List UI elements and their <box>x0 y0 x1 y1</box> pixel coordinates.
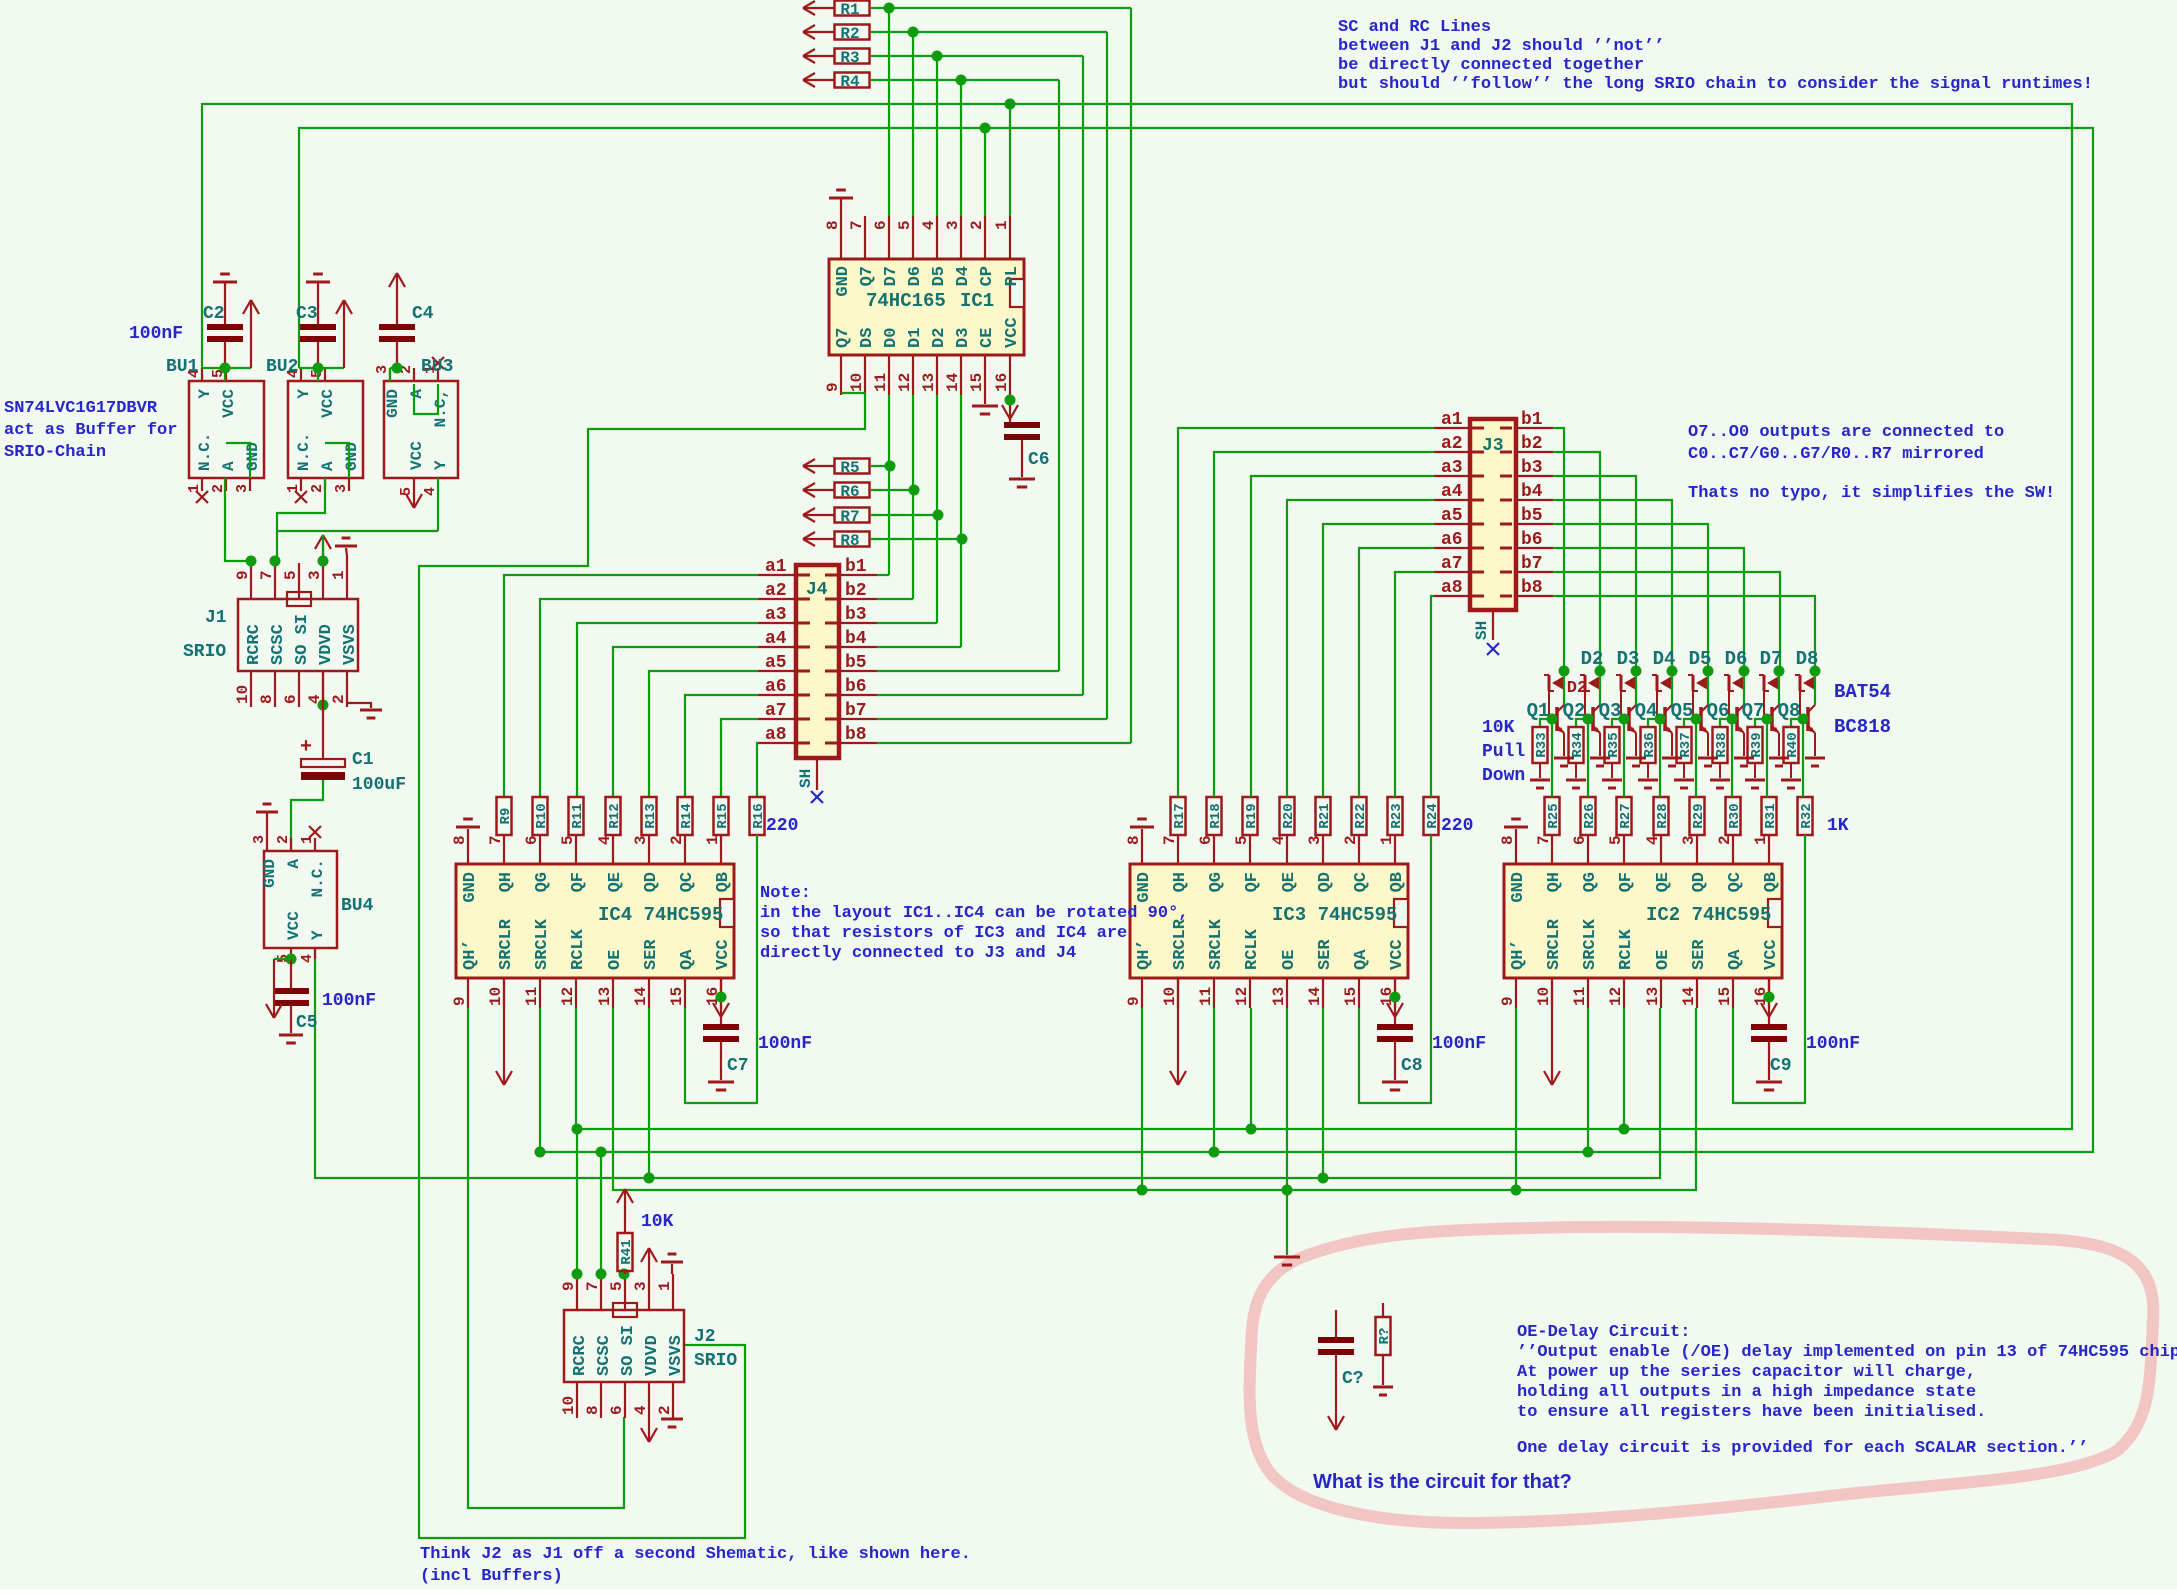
svg-text:QE: QE <box>1280 872 1299 892</box>
svg-text:16: 16 <box>993 373 1011 392</box>
svg-text:J1: J1 <box>205 608 227 628</box>
svg-text:3: 3 <box>1306 835 1324 845</box>
svg-text:6: 6 <box>282 694 300 704</box>
svg-text:DS: DS <box>858 328 877 348</box>
svg-text:BC818: BC818 <box>1834 716 1891 738</box>
svg-text:Thats no typo, it simplifies t: Thats no typo, it simplifies the SW! <box>1688 484 2055 503</box>
svg-text:Y: Y <box>196 389 214 399</box>
transistor Q2 (BC818) <box>1599 671 1601 705</box>
svg-text:A: A <box>285 859 303 869</box>
svg-text:N.C.: N.C. <box>309 859 327 897</box>
diode D1 (BAT54) <box>1559 666 1570 677</box>
svg-text:R35: R35 <box>1606 732 1622 757</box>
svg-text:SRCLK: SRCLK <box>533 918 552 970</box>
svg-text:3: 3 <box>374 365 391 374</box>
capacitor C on IC4 VCC pin16 <box>720 978 722 1024</box>
vcc arrow near C3 <box>318 367 344 369</box>
svg-text:J2: J2 <box>694 1327 716 1347</box>
svg-text:15: 15 <box>1342 987 1360 1006</box>
svg-text:N.C.: N.C. <box>196 433 214 471</box>
svg-text:3: 3 <box>632 1281 650 1291</box>
svg-text:D7: D7 <box>882 266 901 286</box>
connector J2 SRIO <box>564 1310 684 1382</box>
wire R24 bottom jog to QA pin15 <box>1359 835 1431 1103</box>
svg-text:R37: R37 <box>1678 732 1694 757</box>
wire IC3 pin13 OE + gnd drop <box>1286 1008 1288 1190</box>
node base Q5 <box>1691 714 1702 725</box>
svg-text:QB: QB <box>1388 872 1407 892</box>
svg-text:220: 220 <box>766 816 798 836</box>
svg-text:D5: D5 <box>1689 648 1712 670</box>
svg-text:GND: GND <box>1135 872 1154 903</box>
svg-text:b5: b5 <box>1521 506 1543 526</box>
wire IC2 pin12 <box>1623 1008 1625 1129</box>
svg-text:SO SI: SO SI <box>619 1325 638 1376</box>
svg-text:R25: R25 <box>1546 803 1562 828</box>
svg-text:to ensure all registers have b: to ensure all registers have been initia… <box>1517 1403 1986 1422</box>
svg-text:A: A <box>408 389 426 399</box>
svg-text:C1: C1 <box>352 750 374 770</box>
svg-text:b1: b1 <box>1521 410 1543 430</box>
svg-text:+: + <box>300 736 312 759</box>
resistor R30 <box>1726 797 1741 835</box>
svg-text:What is the circuit for that?: What is the circuit for that? <box>1313 1471 1572 1493</box>
svg-text:R23: R23 <box>1389 803 1405 828</box>
svg-text:R36: R36 <box>1642 732 1658 757</box>
svg-text:10: 10 <box>560 1396 578 1415</box>
svg-text:14: 14 <box>944 372 962 392</box>
svg-text:4: 4 <box>632 1405 650 1415</box>
svg-text:9: 9 <box>824 382 842 392</box>
svg-text:D0: D0 <box>882 328 901 348</box>
svg-text:R32: R32 <box>1799 803 1815 828</box>
diode D3 (BAT54) <box>1631 666 1642 677</box>
IC IC4 74HC595 <box>456 864 734 978</box>
svg-text:1: 1 <box>299 835 316 844</box>
svg-text:5: 5 <box>282 570 300 580</box>
svg-text:R29: R29 <box>1691 803 1707 828</box>
svg-text:a1: a1 <box>765 557 787 577</box>
wire IC4 pin11 SRCLK <box>539 1008 541 1152</box>
svg-text:J4: J4 <box>806 580 828 600</box>
wire R16 bottom jog to QA pin15 <box>685 835 757 1103</box>
svg-text:QC: QC <box>678 872 697 892</box>
transistor Q1 (BC818) <box>1563 671 1565 705</box>
buffer BU1 SN74LVC1G17 <box>189 381 264 478</box>
svg-text:QD: QD <box>642 872 661 892</box>
svg-text:QB: QB <box>714 872 733 892</box>
capacitor C3 <box>306 281 330 284</box>
J4 pin a7/b7 <box>758 718 796 720</box>
svg-text:QD: QD <box>1316 872 1335 892</box>
svg-text:QE: QE <box>606 872 625 892</box>
resistor R20 <box>1280 797 1295 835</box>
svg-text:a4: a4 <box>1441 482 1463 502</box>
svg-text:R11: R11 <box>570 803 586 828</box>
svg-text:12: 12 <box>559 987 577 1006</box>
svg-text:7: 7 <box>1161 835 1179 845</box>
svg-text:One delay circuit is provided: One delay circuit is provided for each S… <box>1517 1439 2088 1458</box>
diode D5 (BAT54) <box>1703 666 1714 677</box>
J4 pin a1/b1 <box>758 574 796 576</box>
svg-text:Q7: Q7 <box>858 266 877 286</box>
svg-text:a7: a7 <box>765 701 787 721</box>
svg-text:2: 2 <box>656 1405 674 1415</box>
svg-text:QH’: QH’ <box>1135 939 1154 970</box>
arrow below J2 pin4 <box>648 1417 650 1442</box>
resistor R19 <box>1243 797 1258 835</box>
svg-text:b2: b2 <box>1521 434 1543 454</box>
pink hand-drawn highlight ellipse <box>1250 1227 2154 1523</box>
svg-text:QH: QH <box>1545 872 1564 892</box>
svg-text:220: 220 <box>1441 816 1473 836</box>
svg-text:Think J2 as J1 off a second Sh: Think J2 as J1 off a second Shematic, li… <box>420 1545 971 1564</box>
arrow IC2 pin10 SRCLR <box>1551 978 1553 1085</box>
svg-text:3: 3 <box>234 484 251 493</box>
resistor R40 10K pulldown <box>1784 727 1799 763</box>
svg-text:8: 8 <box>1499 835 1517 845</box>
svg-text:QA: QA <box>678 949 697 970</box>
resistor R26 <box>1581 797 1596 835</box>
svg-text:C4: C4 <box>412 304 434 324</box>
J4 pin a5/b5 <box>758 670 796 672</box>
svg-text:QA: QA <box>1352 949 1371 970</box>
svg-text:2: 2 <box>1342 835 1360 845</box>
svg-text:7: 7 <box>487 835 505 845</box>
resistor R31 <box>1762 797 1777 835</box>
svg-text:O7..O0 outputs are connected t: O7..O0 outputs are connected to <box>1688 423 2004 442</box>
wire BU3 Y output <box>437 478 439 531</box>
transistor Q7 (BC818) <box>1778 671 1780 705</box>
svg-text:3: 3 <box>251 835 268 844</box>
svg-text:R27: R27 <box>1618 803 1634 828</box>
svg-text:QD: QD <box>1690 872 1709 892</box>
wire R1-R4 to b8..b5 columns <box>871 7 1131 9</box>
junction + cap C1 below J1 <box>318 700 329 711</box>
svg-text:10K: 10K <box>641 1212 674 1232</box>
wire BU3 output to J1 pin7 column <box>277 530 438 532</box>
ground above IC3 pin8 <box>1141 829 1143 864</box>
wire IC2 pin9 <box>1515 1008 1517 1190</box>
resistor R41 10K <box>618 1233 633 1271</box>
resistor R10 <box>533 797 548 835</box>
J3 SH pin <box>1492 610 1494 640</box>
wire IC1 pin9/pin10 long route to J2 right side <box>841 392 865 394</box>
svg-text:D6: D6 <box>1725 648 1748 670</box>
svg-text:VCC: VCC <box>1388 939 1407 970</box>
svg-text:but should ’’follow’’ the long: but should ’’follow’’ the long SRIO chai… <box>1338 75 2093 94</box>
svg-text:100nF: 100nF <box>758 1034 812 1054</box>
transistor Q3 (BC818) <box>1635 671 1637 705</box>
svg-text:VCC: VCC <box>1762 939 1781 970</box>
svg-text:D5: D5 <box>930 266 949 286</box>
node base Q2 <box>1583 714 1594 725</box>
svg-text:10: 10 <box>848 373 866 392</box>
wire C1 to BU4 <box>291 780 323 851</box>
svg-text:RCLK: RCLK <box>569 928 588 970</box>
svg-text:’’Output enable (/OE) delay im: ’’Output enable (/OE) delay implemented … <box>1517 1343 2177 1362</box>
svg-text:100nF: 100nF <box>1806 1034 1860 1054</box>
svg-text:11: 11 <box>872 373 890 392</box>
svg-text:QH’: QH’ <box>1509 939 1528 970</box>
resistor R22 <box>1352 797 1367 835</box>
resistor R? <box>1376 1317 1391 1355</box>
svg-text:10: 10 <box>1161 987 1179 1006</box>
svg-text:SER: SER <box>642 939 661 970</box>
wire C2 junction to bus <box>202 367 225 369</box>
svg-text:3: 3 <box>333 484 350 493</box>
svg-text:D8: D8 <box>1796 648 1819 670</box>
J4 pin a8/b8 <box>758 742 796 744</box>
vcc arrow near C2 <box>225 367 251 369</box>
svg-text:4: 4 <box>422 487 439 496</box>
svg-text:R4: R4 <box>840 73 860 91</box>
J3 pin a5/b5 <box>1434 523 1470 525</box>
svg-text:14: 14 <box>632 986 650 1006</box>
svg-text:QG: QG <box>1207 872 1226 892</box>
wire b5..b8 verticals down to J4 <box>1130 8 1132 743</box>
svg-text:D3: D3 <box>1617 648 1640 670</box>
svg-text:1: 1 <box>330 570 348 580</box>
resistor R24 <box>1424 797 1439 835</box>
ground above IC1 pin8 <box>840 198 842 216</box>
wire SER bus <box>315 948 1660 1178</box>
svg-text:12: 12 <box>1607 987 1625 1006</box>
svg-text:holding all outputs in a high: holding all outputs in a high impedance … <box>1517 1383 1976 1402</box>
svg-text:SH: SH <box>797 769 815 788</box>
IC IC1 74HC165 <box>829 259 1024 355</box>
svg-text:be directly connected together: be directly connected together <box>1338 56 1644 75</box>
svg-text:R17: R17 <box>1172 803 1188 828</box>
svg-text:a5: a5 <box>1441 506 1463 526</box>
IC IC2 74HC595 <box>1504 864 1782 978</box>
svg-text:12: 12 <box>1233 987 1251 1006</box>
svg-text:SCSC: SCSC <box>595 1335 614 1376</box>
svg-text:R38: R38 <box>1714 732 1730 757</box>
svg-text:GND: GND <box>834 266 853 297</box>
wire J3 a-side staircase down to R17..R24 <box>1178 428 1434 797</box>
svg-text:VDVD: VDVD <box>643 1335 662 1376</box>
svg-text:7: 7 <box>258 570 276 580</box>
capacitor C2 <box>213 281 237 284</box>
svg-text:9: 9 <box>451 996 469 1006</box>
svg-text:100nF: 100nF <box>129 324 183 344</box>
svg-text:GND: GND <box>261 859 279 888</box>
svg-text:BU1: BU1 <box>166 357 199 377</box>
svg-text:VCC: VCC <box>714 939 733 970</box>
svg-text:b4: b4 <box>845 629 867 649</box>
svg-text:b3: b3 <box>845 605 867 625</box>
transistor Q5 (BC818) <box>1707 671 1709 705</box>
svg-text:SN74LVC1G17DBVR: SN74LVC1G17DBVR <box>4 399 158 418</box>
svg-text:R39: R39 <box>1749 732 1765 757</box>
svg-text:14: 14 <box>1306 986 1324 1006</box>
svg-text:8: 8 <box>1125 835 1143 845</box>
svg-text:1: 1 <box>1752 835 1770 845</box>
svg-text:R3: R3 <box>840 49 859 67</box>
wire BU1 out to J1 pin9 <box>225 478 251 561</box>
svg-text:D2: D2 <box>1581 648 1604 670</box>
svg-text:4: 4 <box>596 835 614 845</box>
svg-text:VSVS: VSVS <box>667 1335 686 1376</box>
svg-text:BU3: BU3 <box>421 357 453 377</box>
svg-text:2: 2 <box>309 484 326 493</box>
svg-text:a4: a4 <box>765 629 787 649</box>
svg-text:a8: a8 <box>765 725 787 745</box>
svg-text:SRIO-Chain: SRIO-Chain <box>4 443 106 462</box>
svg-text:D7: D7 <box>1760 648 1783 670</box>
svg-text:b8: b8 <box>845 725 867 745</box>
resistor R17 <box>1171 797 1186 835</box>
svg-text:1K: 1K <box>1827 816 1849 836</box>
IC IC3 74HC595 <box>1130 864 1408 978</box>
svg-text:VCC: VCC <box>408 441 426 470</box>
svg-text:OE: OE <box>1654 950 1673 970</box>
svg-text:VCC: VCC <box>1003 317 1022 348</box>
svg-text:SRCLK: SRCLK <box>1581 918 1600 970</box>
diode D2 (BAT54) <box>1595 666 1606 677</box>
wire R32 bottom jog to QA pin15 <box>1733 835 1805 1103</box>
svg-text:Y: Y <box>432 460 450 470</box>
svg-text:D6: D6 <box>906 266 925 286</box>
svg-text:R12: R12 <box>607 803 623 828</box>
svg-text:QF: QF <box>1617 872 1636 892</box>
wire R5-R8 to column junctions <box>871 465 890 467</box>
svg-text:BU2: BU2 <box>266 357 298 377</box>
svg-text:a3: a3 <box>765 605 787 625</box>
diode D6 (BAT54) <box>1739 666 1750 677</box>
svg-text:R9: R9 <box>498 808 514 825</box>
svg-text:b6: b6 <box>1521 530 1543 550</box>
junction dots above J1 <box>246 556 257 567</box>
buffer BU2 SN74LVC1G17 <box>288 381 363 478</box>
svg-text:RCLK: RCLK <box>1617 928 1636 970</box>
svg-text:a7: a7 <box>1441 554 1463 574</box>
svg-text:QC: QC <box>1726 872 1745 892</box>
J4 pin a3/b3 <box>758 622 796 624</box>
svg-text:2: 2 <box>330 694 348 704</box>
svg-text:R26: R26 <box>1582 803 1598 828</box>
svg-text:SO SI: SO SI <box>293 614 312 665</box>
svg-text:9: 9 <box>1499 996 1517 1006</box>
svg-text:GND: GND <box>343 442 361 471</box>
svg-text:QF: QF <box>569 872 588 892</box>
resistor R15 <box>714 797 729 835</box>
resistor R36 10K pulldown <box>1641 727 1656 763</box>
svg-text:13: 13 <box>596 987 614 1006</box>
svg-text:6: 6 <box>872 220 890 230</box>
J1 SO/SI jog <box>287 592 311 606</box>
svg-text:SER: SER <box>1690 939 1709 970</box>
svg-text:Y: Y <box>309 930 327 940</box>
svg-text:A: A <box>319 461 337 471</box>
resistor R1 <box>835 1 870 16</box>
svg-text:2: 2 <box>275 835 292 844</box>
svg-text:SRIO: SRIO <box>694 1351 737 1371</box>
J3 pin a6/b6 <box>1434 547 1470 549</box>
svg-text:11: 11 <box>523 987 541 1006</box>
svg-text:1: 1 <box>186 484 203 493</box>
ground above BU4 pin3 <box>256 811 278 814</box>
svg-text:R15: R15 <box>715 803 731 828</box>
svg-text:so that resistors of IC3 and I: so that resistors of IC3 and IC4 are <box>760 924 1127 943</box>
wire IC4 pin12 RCLK <box>575 1008 577 1129</box>
svg-text:OE: OE <box>606 950 625 970</box>
svg-text:R14: R14 <box>679 803 695 828</box>
diode D4 (BAT54) <box>1667 666 1678 677</box>
svg-text:8: 8 <box>451 835 469 845</box>
svg-text:VCC: VCC <box>319 389 337 418</box>
svg-text:b8: b8 <box>1521 578 1543 598</box>
wire IC1 pin15 CE to ground <box>984 395 986 404</box>
svg-text:10: 10 <box>234 685 252 704</box>
svg-text:C7: C7 <box>727 1056 749 1076</box>
svg-text:R13: R13 <box>643 803 659 828</box>
svg-text:R2: R2 <box>840 25 859 43</box>
svg-text:directly connected to J3 and J: directly connected to J3 and J4 <box>760 944 1076 963</box>
svg-text:R34: R34 <box>1570 732 1586 757</box>
svg-text:R19: R19 <box>1244 803 1260 828</box>
resistor R12 <box>606 797 621 835</box>
svg-text:VSVS: VSVS <box>341 624 360 665</box>
svg-text:4: 4 <box>920 220 938 230</box>
svg-text:Down: Down <box>1482 766 1525 786</box>
svg-text:QG: QG <box>533 872 552 892</box>
svg-text:between J1 and J2 should ’’not: between J1 and J2 should ’’not’’ <box>1338 37 1664 56</box>
ground below J2 pin2 <box>661 1418 683 1421</box>
svg-text:a3: a3 <box>1441 458 1463 478</box>
svg-text:D2: D2 <box>930 328 949 348</box>
svg-text:R41: R41 <box>619 1239 635 1264</box>
wire J4 b-side stubs to columns <box>877 574 889 576</box>
transistor Q4 (BC818) <box>1671 671 1673 705</box>
svg-text:RCRC: RCRC <box>245 624 264 665</box>
svg-text:R1: R1 <box>840 1 859 19</box>
node base Q4 <box>1655 714 1666 725</box>
svg-text:QB: QB <box>1762 872 1781 892</box>
svg-text:15: 15 <box>1716 987 1734 1006</box>
svg-text:2: 2 <box>1716 835 1734 845</box>
capacitor C4 <box>396 273 398 324</box>
capacitor C? <box>1335 1310 1337 1337</box>
resistor R5 <box>835 459 870 474</box>
J3 pin a3/b3 <box>1434 475 1470 477</box>
svg-text:100uF: 100uF <box>352 775 406 795</box>
svg-text:15: 15 <box>968 373 986 392</box>
resistor R9 <box>497 797 512 835</box>
svg-text:b7: b7 <box>1521 554 1543 574</box>
svg-text:SCSC: SCSC <box>269 624 288 665</box>
svg-text:b3: b3 <box>1521 458 1543 478</box>
resistor R35 10K pulldown <box>1605 727 1620 763</box>
svg-text:QC: QC <box>1352 872 1371 892</box>
wire J4 a-side staircase down to R9..R16 <box>504 575 758 797</box>
svg-text:4: 4 <box>1270 835 1288 845</box>
J3 pin a8/b8 <box>1434 595 1470 597</box>
buffer BU4 <box>264 851 337 948</box>
svg-text:QH’: QH’ <box>461 939 480 970</box>
svg-text:R5: R5 <box>840 459 859 477</box>
svg-text:R21: R21 <box>1317 803 1333 828</box>
svg-text:Pull: Pull <box>1482 742 1525 762</box>
junction dots above J2 <box>572 1269 583 1280</box>
svg-text:a6: a6 <box>1441 530 1463 550</box>
J4 pin a2/b2 <box>758 598 796 600</box>
wire IC2 pin11 <box>1587 1008 1589 1152</box>
svg-text:IC1: IC1 <box>960 290 994 312</box>
resistor R11 <box>569 797 584 835</box>
wire IC1 pin1/pin2 up to buses <box>1009 104 1011 216</box>
